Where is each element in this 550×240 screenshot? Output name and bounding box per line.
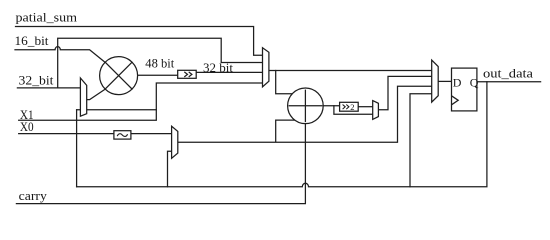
wire carry: label line and riser up through bus hop into adder bottom [16,90,305,203]
wire >>2 box output to mux M4 input 1 [358,106,373,108]
svg-text:Q: Q [470,76,479,90]
wire M2 output: long run right, riser up to M5 input 3 [178,86,432,142]
shifter box >>2 [340,102,359,111]
wire M5 output to D flip-flop input [438,80,451,82]
svg-text:16_bit: 16_bit [15,33,49,48]
wire X1 branch to mux M1 bottom input [77,109,157,111]
wire branch from M2 output line up into adder lower-left [276,120,295,141]
svg-text:32_bit: 32_bit [19,72,54,87]
wire 16_bit: label line with hop over 32_bit riser, bend down to multiplier [15,47,106,63]
shifter box >> (48 bit to 32 bit) [178,70,197,78]
value label ~ in inverter box [117,134,127,137]
wire M2 select riser from feedback bus [168,151,172,186]
wire shifter output to mux M3 input 3 (32 bit) [196,71,262,73]
wire out_data Q output line [477,81,541,83]
wire branch from M3 output down into adder upper-left [276,71,293,94]
wire riser from M1 bottom input down to feedback bus [76,110,78,187]
svg-text:48 bit: 48 bit [145,56,174,71]
mux M5 (4-input, output select) [432,60,439,102]
wire feedback bus: from Q output down, along bottom with hop over carry, to left riser [77,82,487,187]
value label >> in shifter box [184,72,192,77]
wire M5 input 4 riser from feedback bus [410,94,432,187]
D flip-flop clock triangle [452,96,459,105]
wire adder output to shifter >>2 box [289,105,339,107]
wire M3 output to mux M5 input 1 [269,70,432,72]
svg-text:2: 2 [350,102,354,112]
svg-text:out_data: out_data [483,67,534,81]
multiplier U1 circle [100,57,138,95]
wire M4 output riser up to M5 input 2 [378,76,431,109]
svg-text:patial_sum: patial_sum [16,10,78,25]
mux M4 (adder out / >>2 select) [373,101,379,120]
value label >>2 in shifter box [343,105,349,110]
adder plus horizontal [289,105,322,107]
wire inverter output to mux M2 input [131,133,172,135]
wire branch from adder output down to mux M4 input 2 [334,106,373,115]
adder U2 circle [288,88,324,124]
mux M1 (32_bit / feedback select) [80,78,86,116]
svg-text:carry: carry [19,188,48,203]
wire X0: label line into inverter box [19,133,114,135]
wire X1: label line, riser up at x=156, into mux M3 input 4 [19,83,263,120]
adder plus vertical [304,90,306,121]
wire multiplier output to shifter box (48 bit) [138,74,178,76]
inverter box ~ [114,131,131,139]
svg-text:X0: X0 [20,119,34,134]
svg-text:D: D [453,76,462,90]
wire 32_bit: label line into mux M1 input 1 [17,87,80,89]
wire M1 output diagonal to multiplier lower-left [87,89,107,100]
wire 32_bit riser: up from 32_bit line, across top, down to mux M3 input 2 [58,38,263,88]
D flip-flop U3 box [452,68,477,111]
mux M2 (X0 path) [172,126,178,158]
mux M3 (4-input, patial_sum/32_bit/32bit/X1) [263,48,269,87]
multiplier X cross [105,62,132,89]
svg-text:32 bit: 32 bit [203,60,233,75]
wire patial_sum: label line, right run, drop to mux M3 input 1 [16,27,263,56]
